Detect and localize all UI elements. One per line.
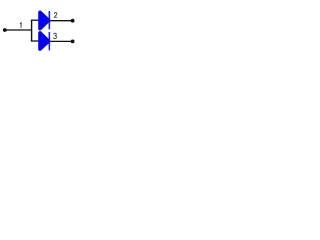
wire common anode vertical <box>31 20 33 41</box>
diode D2 cathode bar <box>49 32 51 50</box>
pin number 3 <box>53 33 56 38</box>
diode D1 cathode bar <box>49 11 51 29</box>
diode D2 triangle <box>40 33 48 49</box>
pin number 2 <box>54 12 57 17</box>
pin 3 terminal dot <box>71 40 75 44</box>
wire cathode lead to pin 2 <box>50 20 72 22</box>
wire cathode lead to pin 3 <box>50 40 72 42</box>
wire anode lead D1 <box>31 19 39 21</box>
wire pin 1 horizontal <box>5 29 32 31</box>
wire anode lead D2 <box>31 40 39 42</box>
pin 1 terminal dot <box>3 28 7 32</box>
pin 2 terminal dot <box>71 19 75 23</box>
diode D1 triangle <box>40 12 48 28</box>
pin number 1 <box>20 23 21 28</box>
